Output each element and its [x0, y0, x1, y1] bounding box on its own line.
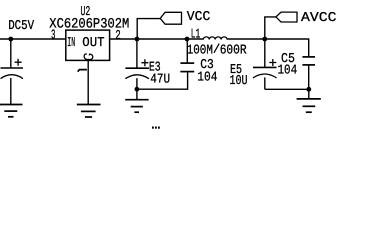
node input cap junction [8, 37, 13, 42]
node C5 ground junction [306, 87, 311, 92]
polarized capacitor (input, unlabeled) [1, 39, 24, 105]
node C3 junction [185, 37, 190, 42]
svg-text:600R: 600R [220, 43, 247, 58]
wire C5 ground stub [308, 89, 310, 99]
svg-text:2: 2 [115, 29, 121, 44]
pin number 1 (GND, rotated) [78, 70, 87, 72]
ground (input cap) [0, 105, 23, 117]
wire output rail (U2 pin 2 to L1) [110, 38, 204, 40]
ground (E5/C5 bus) [297, 99, 321, 112]
svg-text:104: 104 [197, 71, 217, 86]
ground (U2) [77, 105, 101, 118]
power flag AVCC [276, 12, 297, 22]
wire rail after L1 to C5 [227, 39, 309, 57]
wire VCC flag drop [137, 19, 160, 39]
inductor L1 [203, 37, 227, 40]
wire ground bus E3 to C3 [137, 72, 188, 90]
svg-text:VCC: VCC [187, 10, 211, 25]
svg-text:3: 3 [51, 29, 56, 44]
svg-text:L1: L1 [191, 27, 201, 42]
svg-text:104: 104 [278, 63, 298, 78]
artifact dots (cropped text at sheet edge) [152, 127, 160, 129]
svg-text:47U: 47U [150, 73, 170, 88]
regulator U2 body [66, 30, 110, 60]
power flag VCC [160, 12, 181, 24]
wire U2 GND pin to ground [87, 60, 89, 104]
U2 GND pin name glyph (rotated G) [84, 54, 93, 60]
wire ground bus E5 to C5 [265, 88, 309, 90]
capacitor E3 [125, 39, 148, 89]
svg-text:DC5V: DC5V [8, 19, 34, 34]
ground (E3/C3 bus) [125, 100, 148, 113]
svg-text:100M: 100M [187, 43, 213, 58]
wire AVCC flag drop [265, 17, 276, 39]
node VCC/E3 junction [135, 37, 140, 42]
svg-text:AVCC: AVCC [301, 11, 337, 26]
capacitor E5 [253, 39, 277, 89]
capacitor C3 [180, 39, 194, 72]
node E3 ground junction [135, 87, 140, 92]
capacitor C5 [302, 57, 315, 89]
node AVCC/E5 junction [262, 37, 267, 42]
svg-text:IN: IN [67, 36, 75, 51]
wire input rail (DC5V to U2 pin 3) [0, 38, 66, 40]
wire E3 ground stub [136, 89, 138, 100]
svg-text:OUT: OUT [82, 36, 104, 51]
svg-text:10U: 10U [230, 74, 248, 89]
